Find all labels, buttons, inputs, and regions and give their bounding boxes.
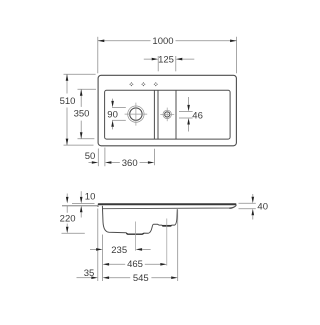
svg-text:10: 10	[85, 192, 96, 203]
ext line small bowl right	[177, 210, 179, 281]
svg-text:46: 46	[192, 110, 203, 121]
dim 220 line and arrows	[66, 194, 69, 234]
svg-text:235: 235	[111, 245, 127, 256]
tap hole symbol 2	[141, 82, 145, 86]
dim 90 tick lines	[112, 107, 126, 120]
svg-text:510: 510	[60, 96, 76, 107]
svg-text:545: 545	[133, 273, 149, 284]
rim left edge	[97, 205, 99, 207]
dim 220 bottom tick (bowl bottom ext)	[62, 232, 85, 234]
dim 465 line and arrows	[103, 263, 167, 266]
small bowl right edge line	[175, 90, 177, 139]
ext line bowl left wall	[102, 235, 104, 282]
dim 10 line and arrows	[80, 191, 83, 217]
svg-text:350: 350	[74, 109, 90, 120]
dim 360 line and arrows	[105, 161, 154, 164]
bowl section profile	[102, 206, 177, 234]
dim 40 tick lines	[239, 203, 256, 209]
small drain circle	[160, 108, 174, 122]
dim 125 extension lines	[158, 56, 176, 71]
svg-text:360: 360	[122, 158, 138, 169]
dim 545 line and arrows	[103, 276, 178, 279]
svg-text:1000: 1000	[152, 36, 173, 47]
rim right end hook	[229, 205, 236, 208]
dim 46 line and arrows	[187, 97, 190, 132]
divider wall line left	[153, 90, 155, 139]
back wall / drainboard underside line	[103, 205, 236, 208]
main drain recess thick mark	[126, 232, 144, 235]
dim 510 line and arrows	[66, 74, 69, 145]
dim 50 line and arrow	[89, 161, 99, 164]
dim 1000 extension lines	[98, 37, 237, 74]
svg-text:50: 50	[85, 151, 96, 162]
dim 35 arrow and text	[77, 276, 98, 279]
svg-text:125: 125	[158, 54, 174, 65]
dim 360 right extension line	[153, 149, 155, 166]
dim 510 extension lines	[64, 74, 96, 145]
ext line sink left	[97, 209, 99, 282]
dim 40 line and arrows	[252, 194, 255, 220]
main drain centerline	[135, 222, 137, 251]
dim 350 extension lines	[78, 89, 97, 139]
rim top left tick (10 upper)	[72, 202, 95, 204]
dim 350 line and arrows	[80, 89, 83, 139]
dim 50 extension lines	[98, 148, 105, 167]
tap hole symbol 1	[129, 82, 133, 86]
countertop line	[62, 205, 98, 207]
dim 1000 line and arrows	[98, 40, 237, 43]
tap hole symbol 3	[154, 82, 158, 86]
inner recess rect	[105, 90, 231, 139]
dim 125 line and arrows	[144, 58, 195, 61]
dim 46 tick lines	[179, 111, 193, 118]
svg-text:90: 90	[107, 109, 118, 120]
svg-text:220: 220	[60, 214, 76, 225]
main drain circle	[125, 103, 148, 126]
small drain recess thick mark	[162, 225, 172, 227]
small drain centerline	[166, 219, 168, 266]
svg-text:40: 40	[257, 202, 268, 213]
rim top bar	[98, 203, 237, 205]
divider wall line right	[157, 90, 159, 139]
dim 235 line and arrows	[90, 248, 151, 251]
dim 90 line and arrows	[111, 99, 114, 130]
svg-text:35: 35	[84, 268, 95, 279]
sink outer rim rect	[98, 75, 236, 146]
svg-text:465: 465	[127, 259, 143, 270]
